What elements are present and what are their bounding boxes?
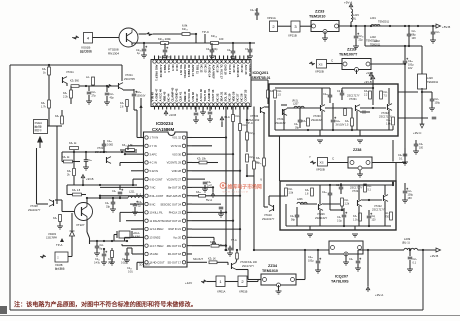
svg-text:SESOSC OUT 24: SESOSC OUT 24 [160,202,181,206]
ZZ33 ground [324,31,326,38]
lower amplifier enclosure box [280,181,396,230]
arrow into XS02B top [309,62,315,66]
wire 3D-COUT from U1 bottom left [136,262,138,270]
svg-text:KZₓ 1K: KZₓ 1K [208,258,216,261]
U2 pin 45 (bottom) [234,103,237,106]
ecap C2 100 on L211 wire [118,191,123,193]
svg-text:C2ₓ 1p: C2ₓ 1p [245,48,253,51]
svg-text:4Bc OUT 19: 4Bc OUT 19 [167,244,182,248]
wire 8a-OUT stub [192,186,213,188]
cap right of ZZ38 row [414,143,419,145]
wire between amp stages x279.5 [279,136,281,181]
U1 left pin 1 7V IN [137,137,144,139]
voltage regulator ZZ33 TEM1007T [342,59,371,70]
svg-text:C2ₓ 1p: C2ₓ 1p [250,9,258,12]
U1 left pin 3 APC [137,153,144,155]
svg-text:+9V-B: +9V-B [86,177,94,181]
upper box extra res [344,109,347,116]
wire vertical bus x=264 to node Y [263,112,265,207]
power +5V-B arrow [436,24,441,28]
resistor KZ 5.1k lower [364,184,367,192]
caps row bottom left: cap 8p [95,245,100,247]
svg-text:Vcc 20: Vcc 20 [173,236,181,240]
cap at ICQ207 output [356,260,361,262]
svg-text:2.8: 2.8 [120,106,124,109]
ecap bottom row upper box [331,119,336,121]
svg-text:+5V-A: +5V-A [344,1,352,5]
svg-text:换信号: 换信号 [35,128,43,132]
svg-text:VT211: VT211 [66,70,74,74]
wire U1 GND2 to ground [131,228,137,230]
ecap C2 3.3u lower [342,214,347,216]
svg-text:A GND 14: A GND 14 [207,65,211,78]
wire SESOSC OUT stub [192,203,221,205]
U1 left pin 4 C IN [137,161,144,163]
U1 right pin 20 Vcc [182,236,185,239]
cap C2 27p left [88,86,90,91]
cap C220 at ZZ33 out [354,35,359,37]
ZZ38 ground [359,170,361,174]
transistor VT210 [62,77,64,83]
svg-text:XP02B: XP02B [316,168,325,172]
wire U1 VO3 to bus B [192,153,233,155]
U2 pin 10 (top) [189,60,192,63]
svg-text:7 NC: 7 NC [150,186,156,190]
cap C2 39p upper [298,119,303,121]
U2 pin 23 (top) [242,60,245,63]
svg-text:VT230: VT230 [313,114,321,118]
U2 pin 1 (top) [153,60,156,63]
svg-text:CXA1586M: CXA1586M [152,127,175,132]
U2 pin 35 (bottom) [193,103,196,106]
svg-text:22μ: 22μ [359,39,364,42]
svg-text:KZₓ 10k: KZₓ 10k [197,158,206,161]
vertical bus E x=254 [253,107,255,251]
U2 pin 24 (top) [246,60,249,63]
svg-text:13 GND2: 13 GND2 [150,236,161,240]
U2 pin 39 (bottom) [210,103,213,106]
svg-text:TP-A: TP-A [56,243,63,247]
wire ZZ33T out right [371,63,405,65]
resistor KZ50 1.8k [126,149,135,152]
scan artifact bottom edge line [0,315,460,317]
svg-text:0.082: 0.082 [107,144,114,147]
svg-text:C: C [332,157,335,161]
svg-text:L207: L207 [293,103,299,106]
svg-text:AVD VREF 1: AVD VREF 1 [155,65,159,82]
svg-text:C2ₓ: C2ₓ [227,49,231,52]
svg-text:6 ID-CONT: 6 ID-CONT [150,177,163,181]
svg-text:1.7k: 1.7k [41,106,46,109]
U2 pin 19 (top) [226,60,229,63]
inductor L201 on rail [371,25,380,27]
svg-text:SD-OUT: SD-OUT [193,257,203,261]
svg-text:5V-A: 5V-A [206,198,212,202]
svg-text:16V: 16V [408,197,413,200]
U2 pin 28 (bottom) [165,103,168,106]
wire right column riser x=393 lower [392,140,394,162]
cap C2 1p near XP21A [255,12,260,14]
wire caps row feed [89,241,91,244]
U2 pin 31 (bottom) [177,103,180,106]
resistor on BGP stub [199,195,206,198]
svg-text:KZₓ: KZₓ [55,115,59,118]
vertical bus A x=226 [225,107,227,251]
resistor KZ 1.7k left frame [48,80,50,100]
svg-text:0.1: 0.1 [399,158,403,161]
wire BGP-A65 to bus C [192,195,240,197]
wire U1 left pins to discrete column [128,145,137,147]
svg-text:CLE 4: CLE 4 [167,65,171,73]
svg-text:100μ: 100μ [435,102,441,105]
schematic frame left border [9,65,11,310]
U1 right pin 31 VCT2 [182,144,185,147]
power +9V-B mid-left [81,175,85,181]
wire ICQ207 output rail y=250 [359,249,391,251]
cap C2 43p left [106,86,108,92]
resistor VT229 collector to rail [236,259,237,263]
upper box mid rail right [281,104,287,106]
U2 pin 27 (bottom) [161,103,164,106]
svg-text:0.47μ: 0.47μ [94,262,101,265]
resistor KZ 1k lower [64,160,73,163]
U1 right pin 29 VCOMT1 [182,161,185,164]
inductor L206 [297,202,307,204]
capacitor C209 [231,50,236,52]
U2 pin 40 (bottom) [214,103,217,106]
svg-text:Y: Y [260,178,263,182]
svg-text:Cₓₓ: Cₓₓ [89,159,93,162]
svg-text:PHCLK 23: PHCLK 23 [169,211,182,215]
wire bus D join bus E [247,175,254,177]
svg-text:XP02B: XP02B [315,70,324,74]
transistor VT221 2SC1717Y [357,200,359,206]
U1 right pin 27 VCOMT2 [182,177,185,180]
svg-text:56p: 56p [291,219,296,222]
resistor KZ 750 bottom lower box [390,212,393,220]
transistor VT231 2SC1717Y [355,105,357,111]
resistor KZ 1.8 lower [73,193,82,196]
U2 pin 14 (top) [206,60,209,63]
svg-text:2.2: 2.2 [364,94,368,97]
wire XS box to ZZ38 [328,162,349,164]
svg-text:SRX1785-01: SRX1785-01 [252,76,271,80]
U2 pin 8 (top) [181,60,184,63]
ecap C2 1u/160V right of L211 [133,203,138,205]
capacitor C206 1u [142,48,147,50]
svg-text:XPE1B: XPE1B [239,290,248,294]
svg-text:TP-A: TP-A [231,239,237,242]
resistor KZ 7.5 upper right [380,91,383,99]
wire VT229 emitter to ZZ34 input [236,269,248,271]
connector XP01B box 4 [84,33,93,44]
power +9V-B arrow right [436,248,441,252]
schematic frame bottom border [10,309,423,311]
wire upper box output right [398,91,418,93]
riser x=422 from rail2, L220, +9V-C [421,46,423,74]
svg-text:RGP IN 21: RGP IN 21 [169,227,182,231]
wire VT228 to VT227 base [55,199,62,201]
cap on rail at x433 [431,31,436,33]
ZZ33T ground stem to +9V-B [356,70,358,75]
svg-text:RN1304: RN1304 [108,52,119,56]
transistor VT233 2SA1162 [260,107,262,113]
arrow into XS03B [40,255,46,259]
svg-text:5 2Z IN: 5 2Z IN [150,169,159,173]
U1 left pin 14 17.7MHz [137,245,144,247]
resistor KZ 1.8k bottom upper box [392,117,395,125]
scan shadow bottom-left corner [0,306,7,314]
svg-text:W W W . D Z S C . C O M: W W W . D Z S C . C O M [223,191,248,193]
U2 bottom pin stubs [154,106,156,109]
resistor KZ 1k on top frame [48,65,50,67]
svg-text:1k: 1k [43,72,46,75]
wire U1 ASC pin left [132,253,137,255]
voltage regulator ZZ38 TEM1007T [348,157,372,168]
svg-text:1 7V IN: 1 7V IN [150,136,159,140]
svg-text:TP-C: TP-C [246,121,254,125]
svg-text:NC 20: NC 20 [232,65,236,73]
svg-text:NC 6: NC 6 [175,65,179,72]
U2 pin 20 (top) [230,60,233,63]
cap C2 0.1 right column [403,153,408,155]
diode VD203 vertical [71,213,73,231]
ICQ207 center pin ground [345,253,347,262]
wire VT0208 emitter down to rail [131,43,133,46]
svg-text:VO1 32: VO1 32 [172,136,181,140]
U2 pin 17 (top) [218,60,221,63]
U2 bottom stub x203 with ground [202,107,204,113]
svg-text:TEM2011: TEM2011 [370,44,381,47]
U2 pin 33 (bottom) [185,103,188,106]
U1 right pin 21 RGP IN [182,227,185,230]
svg-text:10 KILL FIL: 10 KILL FIL [150,211,164,215]
svg-text:KZ₆₀: KZ₆₀ [250,156,255,159]
svg-text:2k: 2k [67,174,70,177]
svg-text:C: C [331,59,334,63]
cap C2 33p below [111,201,116,203]
svg-text:KZₓ 560: KZₓ 560 [70,80,79,83]
svg-text:15 ASC: 15 ASC [150,252,159,256]
svg-text:Y: Y [309,155,311,159]
svg-text:2 Y IN: 2 Y IN [150,144,157,148]
main +5V rail [339,25,436,27]
svg-text:KZₓ: KZₓ [256,157,260,160]
cap C2xx upper mid [328,94,333,96]
U2 pin 30 (bottom) [173,103,176,106]
resistor KZ 1.5 upper box [274,90,277,98]
svg-text:IN-A: IN-A [224,115,230,119]
svg-text:□: □ [57,256,59,260]
svg-text:VD203: VD203 [48,232,56,236]
U1 right pin 28 V2IN [182,169,185,172]
svg-text:3.3k: 3.3k [108,262,113,265]
svg-text:33p: 33p [106,206,111,209]
svg-text:KZₓₓ: KZₓₓ [196,191,201,194]
schematic frame top-left segment [10,64,122,66]
svg-text:12 14.3MHz: 12 14.3MHz [150,227,165,231]
svg-text:A GND 02: A GND 02 [159,65,163,78]
U1 left pin 15 ASC [137,253,144,255]
resistor on bus D lower [246,145,248,152]
svg-text:KZₓ 1k: KZₓ 1k [62,156,70,159]
svg-text:3.3μ: 3.3μ [337,220,342,223]
wire VT0208 collector to top rail with left arrow [139,33,147,35]
resistor KZ below VT228 [59,215,62,222]
svg-text:3V₀/18V: 3V₀/18V [336,124,345,127]
U1 right pin 17 SD-OUT [182,261,185,264]
svg-text:触式整换: 触式整换 [55,267,65,271]
U1 right pin 30 VO3 [182,152,185,155]
U2 pin 41 (bottom) [218,103,221,106]
inductor L207 [294,106,304,108]
resistor KZ06 100k [161,42,169,45]
U1 right pin 25 BGP-A65 [182,194,185,197]
power IN-A near VO2 [192,145,212,147]
cap C2 100u/16V right column [403,190,408,192]
wire upper box mid rail [287,107,320,109]
arrow into XS02B mid [310,161,316,165]
resistor KZ 1k on rail [70,147,79,150]
red watermark logo circle [220,183,262,194]
svg-text:+9V-C: +9V-C [413,131,422,135]
svg-text:ADA VREF: ADA VREF [212,65,216,79]
svg-text:TEM2011: TEM2011 [427,80,439,84]
U2 pin 21 (top) [234,60,237,63]
svg-text:NC 12: NC 12 [199,65,203,73]
svg-text:KZₓ₀: KZₓ₀ [257,162,262,165]
transistor VT211 2SC3735 [118,83,120,89]
caps row bottom left: ecap 0.47u [102,253,107,255]
svg-text:0.01: 0.01 [128,271,133,274]
U2 pin 25 (bottom) [153,103,156,106]
vertical wire x36.5 from XS02A down [36,148,38,204]
connector XP02B box 2 [238,276,247,287]
svg-text:8 DL-CONT: 8 DL-CONT [150,194,164,198]
svg-text:1μ: 1μ [138,205,141,208]
U1 right pin 19 4Bc OUT [182,244,185,247]
wire XP01B to VT0208 base [93,37,120,39]
power +9V-B feed upper box [372,80,374,84]
svg-text:0.1: 0.1 [413,262,417,265]
cap on riser x422 [430,98,435,100]
svg-text:VT211: VT211 [125,73,133,77]
svg-text:10V: 10V [412,37,417,40]
crystal DL2 4.43/3.58M [119,231,130,238]
junction lower box right [392,182,394,184]
wire box1 to box2 [225,281,238,283]
U1 right pin 24 SESOSC OUT [182,202,185,205]
svg-text:XS: XS [320,161,324,165]
voltage regulator ZZ34 TEM1010 [261,274,296,285]
wire U2 right output C [251,79,268,81]
U1 left pin 10 KILL FIL [137,211,144,213]
svg-text:BGP-A65 25: BGP-A65 25 [166,194,181,198]
U1 right pin 32 VO1 [182,136,185,139]
U2 pin 3 (top) [161,60,164,63]
svg-text:7.5: 7.5 [384,95,388,98]
svg-text:ICQ207: ICQ207 [335,275,348,279]
U2 bottom stub x196 with cap [195,107,197,113]
svg-text:(BL-1): (BL-1) [402,241,410,245]
U1 right pin 23 PHCLK [182,211,185,214]
svg-text:43p: 43p [110,97,115,100]
svg-text:2SA1017Y: 2SA1017Y [28,208,41,212]
U1 right pin 26 8a-OUT [182,186,185,189]
wire rail to ICQ207 input [254,249,329,251]
wire 4Bc OUT with resistor [192,245,210,247]
svg-text:VT231: VT231 [349,97,357,101]
svg-text:2SA1017Y: 2SA1017Y [262,217,275,221]
lower box mid wires [300,203,317,205]
inductor component above rail L212 [92,77,95,85]
connector XP02A box 1 [216,276,225,287]
wire ZZ38 node up riser x405 [404,75,406,163]
svg-text:1μ: 1μ [137,51,140,55]
riser x=405 from rail with cap [403,60,408,62]
svg-text:ICDQ201: ICDQ201 [253,71,269,75]
svg-text:5.1: 5.1 [368,189,372,192]
svg-text:2SC1717Y: 2SC1717Y [350,186,363,190]
svg-text:2SC1717Y: 2SC1717Y [379,115,392,119]
power +9V-B under U2 pins [164,111,168,117]
transistor VT226 2SA1162Y [318,204,320,210]
cap C2 1p lower [339,186,344,188]
svg-text:C2 1p: C2 1p [337,90,344,93]
svg-text:(R-2): (R-2) [292,100,298,103]
svg-text:750: 750 [385,216,390,219]
resistor KZ 2k vertical [73,152,75,168]
connector XS top box [317,60,327,69]
cap C2xx 1000p lower [328,192,333,194]
cap C2 1p upper [340,92,345,94]
svg-text:VO3 30: VO3 30 [172,152,181,156]
wire VT233 to upper amp box [265,106,269,108]
cap near 4Bc [228,247,233,249]
svg-text:100μ: 100μ [308,260,314,263]
U2 pin 18 (top) [222,60,225,63]
svg-text:KZ₅₀: KZ₅₀ [250,132,255,135]
transistor VTA10 2SA1017Y [273,205,275,211]
svg-text:0.022: 0.022 [121,262,128,265]
wire box2 to ZZ34 [247,281,258,283]
svg-text:C2ₓₓ: C2ₓₓ [323,93,328,96]
svg-text:NC 16: NC 16 [216,65,220,73]
U2 pin 36 (bottom) [197,103,200,106]
U2 pin 46 (bottom) [238,103,241,106]
svg-text:100: 100 [419,147,424,150]
resistor KZ 2.2k left [70,86,72,90]
U2 pin 6 (top) [173,60,176,63]
svg-text:KZₓ 1k: KZₓ 1k [69,142,77,145]
svg-text:100/16V: 100/16V [137,95,146,98]
cap C201 between rails [407,33,412,35]
U2 pin 13 (top) [202,60,205,63]
svg-text:L206: L206 [297,198,303,201]
U2 pin 12 (top) [197,60,200,63]
svg-text:L2ₓ: L2ₓ [86,76,90,79]
power Vcc stub [192,236,214,238]
wire XS02A to net [48,125,58,127]
transistor VT225 2SA1017Y [106,157,108,163]
U2 pin 44 (bottom) [230,103,233,106]
svg-text:NC 13: NC 13 [203,65,207,73]
wire SD-OUT net to VT229 [192,261,207,263]
svg-text:L215: L215 [353,13,359,17]
wire ZZ38 to lower amp box [372,162,396,164]
U2 bottom stub x210 with cap [209,107,211,112]
U2 pin 11 (top) [193,60,196,63]
